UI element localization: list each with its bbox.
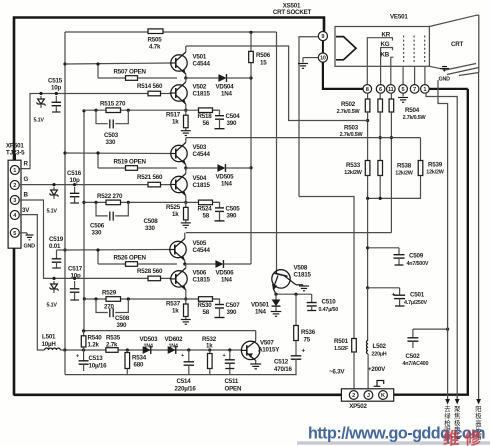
capacitor C507: [213, 299, 220, 305]
node R502 bottom: [367, 112, 369, 161]
svg-text:R521 560: R521 560: [137, 174, 163, 181]
wire base feed stage3 blue upper: [65, 249, 169, 252]
resistor R521: [148, 182, 161, 187]
svg-text:C505: C505: [226, 205, 241, 212]
capacitor C515: [55, 96, 57, 102]
wire V508 feed x276: [276, 32, 278, 270]
pin5 stub: [402, 66, 404, 84]
wire pin6 column: [379, 93, 381, 99]
transistor V504: [171, 176, 187, 192]
svg-text:C504: C504: [226, 113, 241, 120]
svg-text:VD602: VD602: [165, 336, 184, 343]
arrow to focus: [455, 399, 460, 405]
svg-text:C4544: C4544: [193, 61, 211, 68]
svg-text:390: 390: [117, 322, 127, 329]
svg-text:10µH: 10µH: [42, 341, 57, 348]
wire to C501: [368, 287, 400, 289]
svg-text:10p: 10p: [70, 177, 80, 184]
svg-text:VD503: VD503: [140, 336, 159, 343]
zener VD515 5.1V stage1: [40, 96, 42, 99]
svg-text:6: 6: [379, 87, 382, 93]
svg-text:58: 58: [203, 309, 210, 316]
svg-text:330: 330: [106, 139, 116, 146]
CRT funnel: [429, 15, 478, 72]
resistor R515 270: [106, 108, 121, 113]
capacitor C503: [96, 110, 108, 124]
svg-text:R529: R529: [102, 290, 117, 297]
svg-text:L502: L502: [373, 343, 387, 350]
svg-text:C1815: C1815: [193, 91, 211, 98]
svg-text:B: B: [24, 192, 29, 199]
wire pin9-pin10: [322, 41, 324, 53]
resistor R519: [98, 167, 126, 169]
wire R536 to C512: [295, 341, 297, 352]
resistor R535: [106, 348, 118, 353]
svg-text:C519: C519: [49, 236, 64, 243]
resistor R530: [199, 297, 213, 302]
ground VD501: [271, 311, 282, 313]
pin 9 of XS501: [318, 31, 327, 40]
resistor R537: [185, 299, 187, 304]
ground GND at pin5: [19, 232, 27, 234]
wire L502 to XP502: [367, 354, 369, 391]
resistor R532: [209, 350, 211, 354]
wire gnd bus corner: [64, 350, 66, 375]
wire V508 emitter to R536: [295, 294, 297, 325]
zener 5.1V stage3: [53, 281, 55, 284]
wire pin6 col down: [379, 112, 381, 161]
svg-text:+200V: +200V: [368, 366, 386, 373]
svg-text:0.47µ/50: 0.47µ/50: [319, 307, 339, 313]
svg-text:XP501: XP501: [6, 143, 24, 150]
svg-text:4n7/AC400: 4n7/AC400: [403, 361, 429, 367]
XP501 pin 3: [10, 196, 19, 205]
svg-text:R504: R504: [405, 107, 420, 114]
inductor L502: [366, 340, 368, 353]
wire V503 collector: [185, 138, 187, 143]
svg-text:OPEN: OPEN: [225, 386, 242, 393]
pin 5 of XS501: [399, 85, 408, 94]
wire: pin1 heater feed: [429, 88, 467, 90]
svg-text:470/16: 470/16: [274, 366, 292, 373]
arrow to anode: [476, 399, 481, 405]
resistor R504: [389, 99, 394, 112]
wire L502 column: [367, 288, 369, 341]
transistor V507: [241, 341, 259, 359]
wire supply rail x65: [64, 32, 66, 350]
svg-text:4.7µ/250V: 4.7µ/250V: [404, 300, 427, 306]
capacitor C510: [311, 294, 313, 298]
wire R539 top elbow: [420, 138, 422, 161]
svg-text:75: 75: [304, 337, 311, 344]
capacitor C501: [399, 288, 401, 295]
transistor V506: [171, 271, 187, 287]
svg-text:V508: V508: [294, 265, 308, 272]
arrow to green cathode: [445, 399, 450, 405]
svg-text:R534: R534: [132, 355, 147, 362]
svg-text:12k/2W: 12k/2W: [395, 170, 413, 176]
wire R input from pin1: [20, 94, 172, 169]
svg-text:~6.3V: ~6.3V: [329, 369, 345, 376]
svg-text:1N4: 1N4: [221, 91, 233, 98]
XP501 pin 2: [10, 181, 19, 190]
svg-text:R526 OPEN: R526 OPEN: [114, 255, 147, 262]
ground GND at funnel: [444, 69, 446, 72]
resistor R506: [249, 51, 254, 62]
svg-text:C501: C501: [410, 292, 425, 299]
wire top rail y32: [65, 31, 148, 33]
svg-text:10µ/16: 10µ/16: [89, 363, 108, 370]
wire open-resistor drop stage1 red: [97, 64, 99, 78]
resistor R518: [199, 108, 213, 113]
resistor R514: [148, 91, 161, 96]
transistor V503: [171, 145, 187, 161]
wire pin9 to heater column: [299, 37, 318, 197]
svg-text:R503: R503: [344, 125, 359, 132]
svg-text:R506: R506: [256, 52, 271, 59]
capacitor C502: [412, 329, 414, 331]
diode VD501: [275, 294, 277, 299]
wire V507 emitter: [255, 360, 257, 364]
svg-text:2.7k/0.5W: 2.7k/0.5W: [403, 115, 427, 121]
svg-text:5: 5: [13, 231, 16, 237]
watermark underline band: [297, 441, 490, 444]
cathode KG lead: [381, 48, 393, 85]
svg-text:C508: C508: [144, 218, 159, 225]
svg-text:C513: C513: [89, 355, 104, 362]
XP502 pin J: [364, 391, 373, 400]
svg-text:390: 390: [227, 120, 237, 127]
svg-text:V503: V503: [193, 144, 207, 151]
capacitor C509: [398, 248, 400, 255]
cathode KR lead: [367, 38, 392, 85]
grid dashed lead 1: [403, 36, 405, 63]
svg-text:R515 270: R515 270: [100, 101, 126, 108]
wire base feed stage2 green upper: [65, 152, 170, 155]
XP501 pin 1: [10, 166, 19, 175]
svg-text:聚: 聚: [454, 405, 461, 413]
svg-text:R538: R538: [397, 163, 412, 170]
wire V502 emitter: [185, 104, 187, 110]
svg-text:C515: C515: [48, 78, 63, 85]
svg-text:1k: 1k: [206, 343, 213, 350]
svg-text:CRT SOCKET: CRT SOCKET: [273, 9, 312, 16]
resistor R522 270: [106, 200, 121, 205]
svg-text:330: 330: [145, 225, 155, 232]
svg-text:270: 270: [104, 304, 114, 311]
svg-text:+: +: [76, 354, 79, 360]
wire open-resistor drop stage3 blue: [97, 250, 99, 264]
svg-text:1: 1: [423, 87, 426, 93]
resistor R536: [294, 326, 299, 341]
svg-text:10p: 10p: [51, 85, 61, 92]
resistor R524: [199, 200, 213, 205]
wire video bus y137: [186, 137, 421, 139]
ground V508 collector: [302, 284, 304, 287]
svg-text:C4544: C4544: [193, 151, 211, 158]
pin 6 of XS501: [376, 85, 385, 94]
svg-text:R519 OPEN: R519 OPEN: [114, 159, 147, 166]
electron gun chevron: [336, 37, 356, 60]
resistor R539: [418, 161, 423, 176]
svg-text:5.1V: 5.1V: [47, 303, 58, 309]
ground at pin 5: [402, 93, 404, 96]
wire G input from pin2: [19, 184, 171, 186]
svg-text:R525: R525: [166, 204, 181, 211]
svg-text:12k/2W: 12k/2W: [426, 169, 444, 175]
wire R53x bottom tie: [367, 176, 369, 199]
wire V501 emitter to bus: [185, 74, 187, 78]
inductor L501: [45, 348, 61, 350]
wire V503 emitter to bus: [185, 165, 187, 169]
svg-text:C507: C507: [226, 302, 241, 309]
diode VD504: [186, 77, 218, 79]
svg-text:V505: V505: [193, 240, 207, 247]
wire V506 collector to bus: [185, 264, 187, 268]
svg-text:VE501: VE501: [390, 14, 408, 21]
svg-text:C1815: C1815: [193, 182, 211, 189]
svg-text:5: 5: [402, 87, 405, 93]
diode VD602: [168, 346, 176, 354]
svg-text:V506: V506: [193, 269, 207, 276]
wire C512 to gnd bus: [65, 364, 296, 375]
wire B input from pin3: [19, 200, 171, 278]
svg-text:R533: R533: [346, 162, 361, 169]
svg-text:V504: V504: [193, 175, 207, 182]
svg-text:1N4: 1N4: [221, 277, 233, 284]
svg-text:R507 OPEN: R507 OPEN: [114, 69, 147, 76]
svg-text:58: 58: [203, 212, 210, 219]
svg-text:C511: C511: [225, 378, 239, 385]
svg-text:R524: R524: [198, 205, 213, 212]
resistor R529 270: [106, 297, 121, 302]
svg-text:7: 7: [413, 87, 416, 93]
resistor R517: [185, 110, 187, 115]
wire V505 emitter to bus: [184, 261, 186, 265]
wire pin8 column: [367, 93, 369, 99]
svg-text:KB: KB: [381, 52, 390, 59]
svg-text:VD505: VD505: [216, 174, 235, 181]
svg-text:15: 15: [260, 60, 267, 67]
grid dashed lead 3: [424, 36, 426, 63]
svg-text:1k: 1k: [172, 211, 179, 218]
svg-text:4n7/500V: 4n7/500V: [407, 261, 429, 267]
svg-text:1k: 1k: [172, 119, 179, 126]
connector XP502 body: [341, 389, 393, 401]
svg-text:12k/2W: 12k/2W: [344, 170, 362, 176]
svg-text:阳: 阳: [475, 404, 481, 413]
svg-text:C509: C509: [409, 253, 424, 260]
capacitor C513: [83, 350, 85, 354]
svg-text:J: J: [367, 393, 370, 399]
svg-text:GND: GND: [439, 77, 451, 83]
svg-text:56: 56: [203, 120, 210, 127]
pin1 stub: [424, 66, 426, 84]
svg-text:R502: R502: [341, 101, 356, 108]
svg-text:220µ/16: 220µ/16: [175, 386, 197, 393]
resistor R534: [126, 350, 128, 353]
capacitor C516: [74, 187, 76, 193]
svg-text:1k: 1k: [172, 308, 179, 315]
svg-text:220µH: 220µH: [372, 352, 387, 358]
resistor R540: [83, 331, 85, 336]
capacitor C512: [295, 352, 297, 356]
svg-text:极: 极: [475, 411, 482, 420]
resistor R528: [148, 276, 161, 281]
capacitor C508: [96, 299, 108, 313]
svg-text:1N4: 1N4: [169, 344, 178, 350]
capacitor C511: [229, 350, 231, 355]
svg-text:A1015Y: A1015Y: [258, 347, 280, 354]
wire grid line B: [426, 93, 457, 399]
wire V506 emitter: [185, 290, 187, 299]
capacitor C506: [96, 202, 108, 216]
svg-text:C517: C517: [68, 266, 83, 273]
svg-text:3V: 3V: [22, 207, 30, 214]
svg-text:C508: C508: [115, 315, 130, 322]
svg-text:KR: KR: [382, 31, 391, 38]
pin 11 of XS501: [387, 85, 396, 94]
svg-text:C1815: C1815: [294, 272, 312, 279]
wire pin11 col down: [390, 112, 392, 233]
wire open-resistor drop stage2 green: [97, 153, 99, 168]
svg-text:R501: R501: [334, 338, 349, 345]
svg-text:V501: V501: [193, 54, 207, 61]
svg-text:10: 10: [320, 56, 326, 62]
XP501 pin 4: [10, 211, 19, 220]
capacitor C514: [188, 350, 190, 355]
wire emitter line stage3 blue: [84, 298, 218, 300]
chassis flag at XP502: [374, 385, 381, 387]
svg-text:R540: R540: [88, 335, 103, 342]
resistor R525: [185, 202, 187, 207]
wire V507 collector: [255, 331, 257, 341]
wire rail x84: [83, 111, 85, 331]
resistor R533: [365, 161, 370, 176]
svg-text:C503: C503: [104, 132, 119, 139]
pin 10 of XS501: [318, 53, 327, 62]
transistor V501: [171, 55, 187, 71]
svg-text:8: 8: [366, 87, 369, 93]
svg-text:R514 560: R514 560: [137, 83, 163, 90]
svg-text:C1815: C1815: [193, 276, 211, 283]
transistor V508: [272, 270, 290, 288]
wire grid line A: [438, 80, 448, 399]
svg-text:1N4: 1N4: [255, 309, 267, 316]
XP502 pin 2: [349, 391, 358, 400]
svg-text:3: 3: [13, 198, 16, 204]
svg-text:0.01: 0.01: [49, 243, 61, 250]
wire emitter line stage1 red: [84, 109, 218, 111]
wire V508 emitter node: [276, 293, 312, 295]
zener 5.1V stage2: [53, 187, 55, 190]
funnel aquadag slashes: [443, 64, 476, 71]
svg-text:1N4: 1N4: [144, 344, 153, 350]
svg-text:1.2k: 1.2k: [88, 342, 100, 349]
wire V501 collector: [185, 46, 187, 52]
wire R503 output line: [186, 46, 368, 121]
svg-text:9: 9: [321, 34, 324, 40]
svg-text:C516: C516: [67, 170, 82, 177]
svg-text:绿: 绿: [444, 411, 451, 420]
svg-text:C510: C510: [322, 299, 337, 306]
svg-text:1.5/2F: 1.5/2F: [334, 346, 349, 352]
wire V504 emitter: [185, 196, 187, 203]
diode VD505: [186, 167, 217, 169]
CRT base box: [335, 27, 429, 67]
cathode KB lead: [391, 57, 394, 84]
transistor V502: [171, 85, 187, 101]
svg-text:C514: C514: [177, 378, 192, 385]
svg-text:维修: 维修: [443, 428, 486, 446]
resistor R502: [365, 99, 370, 112]
svg-text:V502: V502: [193, 84, 207, 91]
svg-text:2: 2: [352, 393, 355, 399]
capacitor C505: [213, 202, 220, 208]
resistor R503 body: [378, 99, 383, 112]
wire V504 collector to bus: [185, 168, 187, 174]
wire: top shield run from border to CRT socket pin 9: [14, 18, 324, 396]
svg-text:VD506: VD506: [216, 270, 235, 277]
svg-text:390: 390: [227, 309, 237, 316]
diode VD503: [143, 346, 151, 354]
svg-text:R517: R517: [166, 112, 181, 119]
wire anode line: [478, 73, 480, 400]
resistor R507: [98, 77, 126, 79]
capacitor C517: [74, 281, 76, 289]
svg-text:VD504: VD504: [216, 84, 235, 91]
svg-text:CRT: CRT: [451, 41, 464, 48]
connector XP501 body: [8, 160, 21, 248]
wire: bottom border bus to XP502: [14, 393, 341, 396]
pin 1 of XS501: [421, 85, 430, 94]
svg-text:VD501: VD501: [251, 302, 270, 309]
wire: XP502 to heater rail elbow: [394, 89, 468, 395]
svg-text:V507: V507: [260, 340, 274, 347]
grid dashed lead 2: [413, 36, 415, 63]
ground R537: [181, 319, 191, 321]
svg-text:2.7k/0.5W: 2.7k/0.5W: [337, 109, 361, 115]
wire R501 to XP502: [353, 352, 355, 390]
wire boost bus y330: [84, 330, 256, 332]
XP501 pin 5: [10, 228, 19, 237]
svg-text:680: 680: [134, 362, 144, 369]
wire R506 column: [250, 32, 252, 51]
svg-text:+: +: [181, 353, 184, 359]
svg-text:11: 11: [388, 87, 394, 93]
svg-text:KG: KG: [381, 41, 390, 48]
svg-text:C506: C506: [90, 222, 105, 229]
resistor R538: [378, 161, 383, 176]
transistor V505: [170, 241, 186, 257]
ground at pin 10: [303, 57, 318, 59]
pin7 stub: [414, 66, 416, 84]
ground V507: [250, 363, 261, 365]
svg-text:390: 390: [227, 212, 237, 219]
svg-text:R522 270: R522 270: [97, 193, 123, 200]
wire base feed stage1 red upper: [65, 63, 170, 64]
svg-text:焦: 焦: [454, 411, 461, 420]
svg-text:G: G: [24, 176, 29, 183]
svg-text:R: R: [24, 161, 29, 168]
diode VD506: [186, 263, 215, 265]
ground R525: [181, 222, 191, 224]
svg-text:R537: R537: [166, 301, 181, 308]
wire V505 collector: [184, 233, 186, 239]
svg-text:4.7k: 4.7k: [149, 44, 161, 51]
wire R533 column to C caps: [367, 248, 369, 288]
svg-text:2: 2: [13, 183, 16, 189]
